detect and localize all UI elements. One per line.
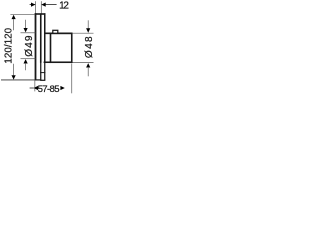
svg-text:57-85: 57-85 <box>38 84 60 95</box>
dimension D49: lower extension line <box>21 58 36 60</box>
dimension 12: left arrow (points left, tip on right ext line) <box>41 3 45 7</box>
handle bottom edge <box>35 79 42 81</box>
concealed body: right edge <box>44 62 46 80</box>
dimension 12: left extension line <box>34 1 36 14</box>
dimension 12: leader line <box>46 4 57 6</box>
dimension D49: upper tail line <box>25 20 27 29</box>
dimension D48: down arrow <box>86 28 90 32</box>
concealed body: middle bridge line <box>40 72 45 74</box>
dimension 120/120: top arrow (points up) <box>12 15 16 19</box>
extension line at handle bottom (120 dimension baseline) <box>1 79 35 81</box>
connection stub on top of box <box>53 30 58 33</box>
dimension 57-85: right extension line <box>71 64 73 94</box>
svg-text:12: 12 <box>59 0 69 11</box>
valve unit: plate front face line <box>40 13 42 62</box>
valve unit: plate back face line <box>44 13 46 63</box>
dimension 12: left dim line <box>30 4 36 6</box>
concealed box: bottom edge extension to plate back <box>44 61 51 63</box>
concealed body: left edge <box>40 62 42 80</box>
concealed box: rectangle <box>51 33 72 62</box>
svg-text:Ø48: Ø48 <box>84 35 95 58</box>
dimension 12: right arrow (points right, tip on left ext line) <box>31 3 35 7</box>
dimension 120/120: lower dim line segment <box>13 64 15 76</box>
dimension D48: upper extension line <box>73 32 94 34</box>
dimension D49: lower tail line <box>25 63 27 70</box>
concealed body: bottom cap <box>40 79 45 81</box>
dimension 12: right extension line <box>40 1 42 14</box>
dimension D48: up arrow <box>86 63 90 67</box>
dimension 120/120: bottom arrow (points down) <box>12 75 16 79</box>
dimension D48: upper tail line <box>87 20 89 29</box>
dimension D49: down arrow <box>24 28 28 32</box>
dimension 120/120: upper dim line segment <box>13 19 15 30</box>
dimension D48: lower extension line <box>73 62 94 64</box>
dimension 57-85: left overshoot line <box>30 87 34 89</box>
dimension D49: up arrow <box>24 59 28 63</box>
valve unit side profile: top edge <box>35 13 46 15</box>
concealed box (in-wall basic set): top edge extending to plate back <box>44 32 72 34</box>
dimension D49: upper extension line <box>21 32 36 34</box>
dimension D48: lower tail line <box>87 67 89 76</box>
dimension 57-85: right arrow (points right) <box>60 86 64 90</box>
svg-text:120/120: 120/120 <box>3 27 14 63</box>
dimension 57-85: left arrow (points left) <box>34 86 38 90</box>
valve unit: handle front face (full height down to bottom) <box>35 13 37 80</box>
dimension 57-85: left extension line <box>34 80 36 91</box>
svg-text:Ø49: Ø49 <box>24 34 35 56</box>
dimension 120/120: top extension line <box>10 13 35 15</box>
